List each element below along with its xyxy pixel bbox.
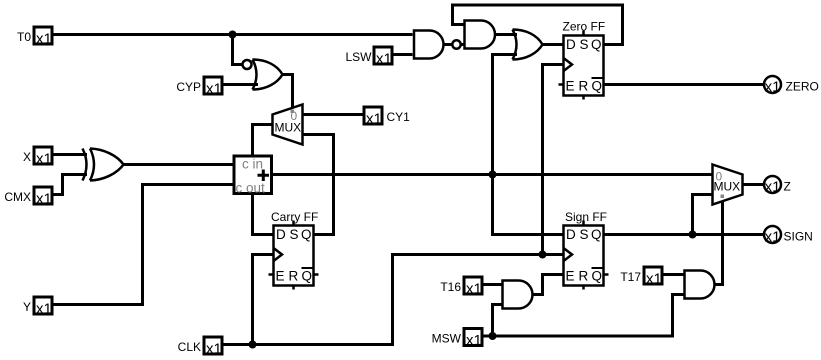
- svg-text:T17: T17: [620, 270, 641, 284]
- wire Carry FF Q to MUX1 input 1: [303, 135, 334, 235]
- svg-text:MSW: MSW: [432, 332, 462, 346]
- svg-text:D: D: [276, 227, 286, 242]
- input pin CLK: [178, 337, 222, 358]
- svg-text:x1: x1: [36, 31, 52, 48]
- svg-text:CLK: CLK: [178, 340, 201, 354]
- junction dot on CLK wire: [249, 341, 257, 349]
- input pin T17: [620, 267, 662, 288]
- svg-text:x1: x1: [646, 271, 662, 288]
- wire NAND1 output to AND2 input 2: [461, 43, 465, 46]
- svg-text:CMX: CMX: [4, 190, 31, 204]
- wire OR2 output to Zero FF D: [543, 43, 563, 46]
- svg-text:E: E: [276, 269, 285, 284]
- AND gate U4 (feedback and NAND1 out): [465, 21, 496, 49]
- input pin CYP: [176, 77, 222, 98]
- wire adder c out to Carry FF D: [253, 195, 273, 235]
- junction dot on clock row: [539, 251, 547, 259]
- svg-text:x1: x1: [36, 191, 52, 208]
- svg-text:c out: c out: [236, 181, 266, 196]
- svg-text:T0: T0: [17, 30, 31, 44]
- flip-flop Zero FF: [559, 20, 606, 100]
- wire CLK branch to Carry FF clock: [253, 255, 273, 345]
- svg-text:Sign FF: Sign FF: [565, 210, 607, 224]
- svg-text:Q: Q: [301, 227, 312, 242]
- wire XOR output to adder input A: [123, 163, 233, 166]
- input pin CMX: [4, 187, 52, 208]
- wire adder sum output to MUX2 input 0: [273, 173, 713, 176]
- adder U8: [234, 156, 272, 196]
- wire CY1 to MUX1 input 0: [303, 113, 363, 116]
- output pin Z: [764, 176, 791, 196]
- svg-text:x1: x1: [466, 281, 482, 298]
- svg-text:X: X: [23, 150, 31, 164]
- OR gate U2 with negated top input (CYP gate): [243, 60, 283, 90]
- wire AND2 output to OR2 input 1: [495, 33, 518, 36]
- svg-text:Q: Q: [592, 269, 603, 284]
- wire Sign FF Q to SIGN output: [604, 233, 765, 236]
- wire X to XOR input 1: [53, 153, 88, 156]
- svg-text:x1: x1: [765, 179, 781, 196]
- OR gate U5 (into Zero FF D): [513, 30, 543, 60]
- wire T0 branch down to OR1 negated input bubble: [233, 35, 243, 65]
- input pin T16: [440, 277, 482, 298]
- input pin Y: [23, 297, 52, 318]
- svg-text:Q: Q: [592, 79, 603, 94]
- svg-text:x1: x1: [765, 79, 781, 96]
- wire AND3 output to Sign FF E: [533, 275, 563, 295]
- svg-text:MUX: MUX: [714, 180, 741, 194]
- wire OR1 output to MUX1 select: [283, 75, 293, 109]
- svg-text:c in: c in: [242, 157, 263, 172]
- wire T16 to AND3 input 1: [483, 283, 503, 286]
- svg-text:Q: Q: [591, 37, 602, 52]
- junction dot on T0 wire: [229, 31, 237, 39]
- svg-text:SIGN: SIGN: [784, 230, 813, 244]
- svg-text:x1: x1: [765, 229, 781, 246]
- svg-text:x1: x1: [36, 301, 52, 318]
- output pin SIGN: [764, 226, 813, 246]
- wire CLK branch up to Zero FF clock: [543, 65, 563, 255]
- svg-text:ZERO: ZERO: [786, 80, 819, 94]
- svg-text:Q: Q: [302, 269, 313, 284]
- input pin T0: [17, 27, 52, 48]
- svg-text:E: E: [566, 79, 575, 94]
- wire SIGN branch to MUX2 input 1: [693, 195, 713, 235]
- wire LSW to NAND1 input 2: [393, 53, 413, 56]
- svg-text:R: R: [579, 269, 589, 284]
- junction dot on MSW wire: [489, 332, 497, 340]
- input pin X: [23, 147, 52, 168]
- AND gate U7 (T17 and MSW): [685, 271, 715, 299]
- wire MSW branch to AND3 input 2: [493, 305, 503, 337]
- input pin CY1: [364, 107, 410, 128]
- svg-text:R: R: [289, 269, 299, 284]
- svg-text:x1: x1: [366, 111, 382, 128]
- wire MSW to AND4 input 2: [483, 295, 685, 337]
- flip-flop Sign FF: [564, 210, 609, 290]
- svg-text:Y: Y: [23, 300, 31, 314]
- junction dot adder output / Sign D net: [489, 171, 497, 179]
- wire CYP to OR1 lower input: [223, 83, 259, 86]
- multiplexer MUX2 (east facing): [713, 165, 743, 205]
- flip-flop Carry FF: [269, 210, 319, 290]
- NAND gate U3 (T0 nand LSW): [414, 31, 461, 59]
- wire CMX to XOR input 2: [53, 175, 88, 195]
- input pin LSW: [345, 47, 392, 68]
- svg-text:S: S: [290, 227, 299, 242]
- wire MUX1 output to adder c in: [253, 125, 273, 155]
- wire T17 to AND4 input 1: [663, 273, 685, 276]
- svg-text:Q: Q: [591, 227, 602, 242]
- output pin ZERO: [764, 76, 819, 96]
- wire Zero FF Q feedback to AND2 input 1: [453, 5, 623, 45]
- svg-text:D: D: [566, 37, 576, 52]
- svg-text:R: R: [579, 79, 589, 94]
- svg-text:Z: Z: [784, 180, 791, 194]
- junction dot on SIGN wire: [689, 231, 697, 239]
- svg-text:MUX: MUX: [275, 121, 302, 135]
- svg-text:LSW: LSW: [345, 50, 372, 64]
- svg-text:S: S: [580, 37, 589, 52]
- svg-text:x1: x1: [206, 81, 222, 98]
- wire MUX2 output to Z output: [743, 183, 765, 186]
- XOR gate U1 (X xor CMX): [83, 149, 124, 181]
- svg-text:x1: x1: [206, 341, 222, 358]
- input pin MSW: [432, 329, 482, 350]
- multiplexer MUX1 (west facing): [273, 105, 303, 145]
- svg-text:T16: T16: [440, 280, 461, 294]
- svg-text:E: E: [566, 269, 575, 284]
- wire T0 to NAND1 input 1: [53, 33, 413, 36]
- svg-text:x1: x1: [376, 51, 392, 68]
- svg-text:x1: x1: [466, 332, 482, 349]
- wire Zero FF Qbar to ZERO output: [604, 83, 765, 86]
- svg-text:S: S: [580, 227, 589, 242]
- svg-text:x1: x1: [36, 151, 52, 168]
- svg-text:CY1: CY1: [387, 110, 411, 124]
- svg-text:D: D: [566, 227, 576, 242]
- svg-text:CYP: CYP: [176, 80, 201, 94]
- AND gate U6 (T16 and MSW): [503, 281, 533, 309]
- wire CLK main run to Sign FF clock: [223, 255, 563, 345]
- wire net OR2 lower input down to Sign FF D: [493, 55, 563, 235]
- wire AND4 output to MUX2 select: [715, 202, 723, 285]
- wire Y to adder input B: [53, 185, 233, 305]
